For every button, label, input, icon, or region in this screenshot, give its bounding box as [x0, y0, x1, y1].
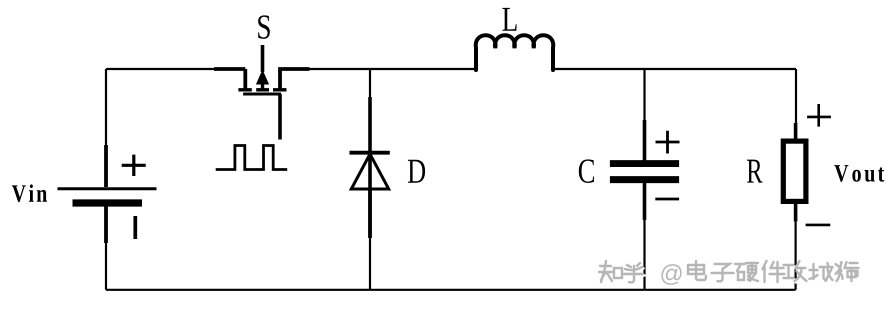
capacitor C top lead — [643, 120, 647, 161]
watermark char 电 — [688, 261, 706, 280]
wire: battery to bottom rail — [105, 242, 107, 290]
diode D cathode bar — [350, 151, 390, 155]
wire: top rail left segment (battery to MOSFET) — [106, 68, 215, 70]
transistor S source line from label — [261, 45, 265, 72]
diode D triangle (points up) — [351, 154, 388, 189]
transistor S right pad — [273, 88, 287, 91]
watermark gray text layer — [599, 261, 859, 285]
watermark char 狮 — [836, 262, 859, 281]
resistor R body (rectangle) — [783, 141, 806, 201]
watermark char 件 — [763, 261, 785, 282]
wire: capacitor top connection — [643, 69, 645, 121]
wire: diode to bottom rail — [369, 237, 371, 290]
label L — [502, 8, 516, 31]
transistor S arrow stub to pad — [261, 83, 264, 89]
battery V1 (Vin) positive lead — [104, 145, 108, 187]
transistor S center pad — [256, 88, 269, 91]
diode D cathode lead (passes through triangle) — [368, 97, 372, 238]
wire: top rail inductor to right corner — [553, 68, 796, 70]
capacitor C bottom plate — [610, 176, 679, 183]
wire: top rail MOSFET to inductor — [309, 68, 476, 70]
wire: left vertical (top rail corner down to battery) — [105, 69, 107, 146]
battery plus sign — [122, 155, 146, 176]
watermark char 硬 — [735, 263, 758, 281]
gate drive pulse waveform — [216, 146, 288, 170]
resistor minus sign — [806, 224, 831, 227]
diode D anode lead — [368, 189, 372, 238]
wire: right vertical top (rail corner to resistor) — [795, 69, 797, 124]
transistor S arrow (points up) — [256, 70, 269, 85]
label Vin — [12, 185, 26, 202]
capacitor minus sign — [655, 198, 679, 201]
transistor S right (source) lead — [278, 69, 309, 89]
watermark char 攻 — [784, 261, 807, 281]
label Vout — [834, 165, 848, 182]
wire: resistor to bottom rail — [794, 220, 796, 290]
wire: bottom rail — [106, 289, 796, 291]
label D — [408, 160, 425, 183]
watermark emboss highlight (white shadow) — [600, 262, 860, 286]
label R — [747, 160, 763, 183]
battery minus sign (vertical tick) — [133, 216, 137, 239]
resistor R top lead — [794, 123, 798, 141]
battery V1 negative lead — [104, 206, 108, 243]
battery V1 long positive plate — [58, 187, 157, 190]
watermark char 子 — [712, 264, 734, 281]
resistor plus sign — [807, 104, 831, 127]
wire: diode top connection — [369, 69, 371, 98]
capacitor C top plate — [610, 160, 679, 167]
transistor S left pad — [238, 88, 251, 91]
watermark char 乎 — [623, 263, 643, 282]
wire: capacitor to bottom rail — [643, 219, 645, 290]
battery V1 short negative plate — [73, 199, 143, 206]
transistor S gate lead down — [278, 94, 282, 140]
watermark char @ — [661, 264, 681, 285]
capacitor plus sign — [656, 131, 680, 154]
transistor S gate bar — [243, 93, 281, 96]
watermark char 知 — [599, 261, 622, 282]
resistor R bottom lead — [794, 202, 798, 221]
watermark char 城 — [810, 263, 833, 281]
label C — [579, 159, 594, 183]
capacitor C bottom lead — [643, 182, 647, 220]
transistor S (MOSFET switch) label — [258, 15, 270, 39]
inductor L — [476, 35, 553, 70]
transistor S left (drain) lead — [214, 69, 245, 89]
